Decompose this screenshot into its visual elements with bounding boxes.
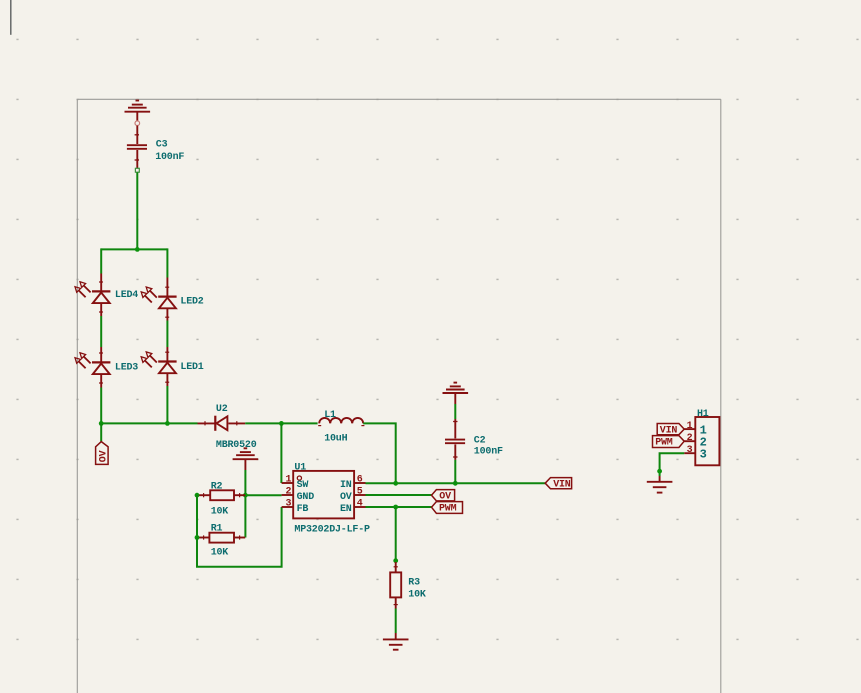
wire right column mid: [166, 321, 168, 348]
svg-text:1: 1: [286, 475, 292, 486]
LED3 arrows: [75, 353, 91, 369]
svg-text:PWM: PWM: [655, 438, 673, 449]
svg-text:LED3: LED3: [115, 363, 138, 374]
U2 labels: [216, 404, 257, 451]
resistor R1: [199, 533, 245, 543]
svg-text:IN: IN: [340, 480, 352, 491]
global label VIN (H1 side): [657, 424, 684, 437]
global label OV (mid): [432, 490, 455, 503]
svg-text:10K: 10K: [408, 590, 426, 601]
junction EN node: [393, 505, 398, 510]
U1 pin 5 OV: [340, 487, 366, 503]
R2 labels: [211, 482, 229, 518]
junction H1 ground: [657, 469, 662, 474]
junction SW node: [279, 421, 284, 426]
wire left column lower: [100, 388, 102, 424]
global label PWM (mid): [432, 502, 463, 515]
svg-text:2: 2: [687, 433, 693, 444]
U1 pin 4 EN: [340, 499, 366, 515]
U1 pin 2 GND: [282, 487, 315, 503]
wire right column lower: [166, 386, 168, 423]
wire right column upper: [166, 248, 168, 277]
capacitor C3: [127, 126, 147, 169]
R1 labels: [211, 523, 229, 558]
junction right bottom: [165, 421, 170, 426]
svg-text:SW: SW: [297, 480, 309, 491]
wire GND junction to pin 2: [245, 494, 281, 496]
wire gnd to C2: [454, 404, 456, 419]
svg-text:C2: C2: [474, 435, 486, 446]
wire OV pin to OV label: [366, 494, 432, 496]
junction R1 left: [195, 535, 200, 540]
connector H1 body: [695, 417, 719, 465]
resistor R3: [390, 562, 401, 609]
sheet border frame: [77, 99, 721, 693]
resistor R2: [199, 490, 245, 500]
svg-text:10uH: 10uH: [324, 434, 347, 445]
U1 pin 3 FB: [282, 499, 309, 515]
svg-text:10K: 10K: [211, 548, 229, 559]
LED2 arrows: [141, 287, 157, 303]
wire IN to VIN label: [366, 482, 546, 484]
junction GND net: [243, 493, 248, 498]
svg-text:GND: GND: [297, 492, 315, 503]
LED1 label: [180, 362, 203, 373]
wire R1 left down and across to FB: [197, 507, 282, 567]
diode U2: [198, 416, 246, 431]
wire L1 to IN column: [363, 423, 396, 483]
junction left bottom: [99, 421, 104, 426]
ground (flipped) above R2 GND net: [233, 448, 259, 470]
svg-text:PWM: PWM: [439, 504, 457, 515]
svg-text:R3: R3: [408, 577, 420, 588]
svg-text:6: 6: [357, 475, 363, 486]
svg-text:L1: L1: [324, 410, 336, 421]
op-amp U1 MP3202 body: [293, 471, 354, 519]
wire H1 pin 3 to ground: [660, 453, 685, 476]
LED2: [158, 278, 176, 321]
U1 pin 1 SW: [282, 475, 309, 491]
U1 reference label: [294, 463, 306, 474]
svg-text:H1: H1: [697, 409, 709, 420]
wire LED top bus: [101, 248, 167, 250]
wire left column mid: [100, 316, 102, 347]
svg-text:FB: FB: [297, 504, 309, 515]
svg-text:R2: R2: [211, 482, 223, 493]
junction C2 node: [453, 481, 458, 486]
H1 pin 2: [684, 433, 706, 450]
svg-text:5: 5: [357, 487, 363, 498]
wire C3 to LED bus: [136, 172, 138, 249]
svg-text:1: 1: [687, 421, 693, 432]
U1 pin-1 indicator circle: [297, 476, 301, 480]
svg-text:U1: U1: [294, 463, 306, 474]
svg-text:MBR0520: MBR0520: [216, 440, 257, 451]
svg-text:2: 2: [286, 487, 292, 498]
H1 pin 3: [684, 445, 706, 462]
global label OV (vertical): [96, 442, 110, 465]
ground (flipped) above C3: [125, 101, 151, 122]
junction R2 left: [195, 493, 200, 498]
capacitor C2: [445, 419, 465, 460]
L1 labels: [324, 410, 347, 445]
U1 value label: [294, 525, 370, 536]
ground (flipped) above C2: [443, 383, 469, 404]
svg-text:MP3202DJ-LF-P: MP3202DJ-LF-P: [294, 525, 370, 536]
C2 labels: [474, 435, 503, 457]
LED4 arrows: [75, 282, 91, 298]
svg-text:10K: 10K: [211, 507, 229, 518]
wire left column upper: [100, 248, 102, 273]
wire diode to L1: [245, 422, 317, 424]
wire to OV flag: [100, 423, 102, 441]
LED3 label: [115, 363, 138, 374]
LED4: [92, 274, 110, 317]
wire R2 left to R1 left: [196, 495, 198, 537]
wire EN pin to PWM label: [366, 506, 432, 508]
C3 labels: [155, 139, 184, 163]
unconnected pin circle node: [135, 121, 140, 126]
H1 pin 1: [684, 421, 706, 438]
wire C2 to IN line: [454, 460, 456, 483]
svg-text:100nF: 100nF: [474, 446, 503, 457]
svg-text:LED1: LED1: [180, 362, 203, 373]
global label PWM (H1 side): [653, 436, 685, 449]
page frame tick top-left: [10, 0, 12, 35]
wire R3 to ground: [395, 609, 397, 634]
wire end square at C3 bottom: [135, 168, 139, 172]
svg-text:3: 3: [700, 448, 707, 462]
H1 reference label: [697, 409, 709, 420]
svg-text:100nF: 100nF: [155, 152, 184, 163]
svg-text:3: 3: [286, 499, 292, 510]
LED4 label: [115, 290, 138, 301]
LED1: [158, 347, 176, 386]
wire EN node down to R3: [395, 507, 397, 562]
svg-text:OV: OV: [98, 450, 109, 462]
global label VIN (mid): [545, 478, 571, 491]
ground below R3: [383, 633, 409, 650]
LED3: [92, 347, 110, 388]
svg-text:OV: OV: [340, 492, 352, 503]
svg-text:LED4: LED4: [115, 290, 138, 301]
LED2 label: [180, 296, 203, 307]
svg-text:C3: C3: [156, 139, 168, 150]
svg-text:3: 3: [687, 445, 693, 456]
inductor L1: [318, 418, 364, 426]
junction R3 top: [393, 558, 398, 563]
svg-text:VIN: VIN: [553, 480, 571, 491]
U1 pin 6 IN: [340, 475, 366, 491]
wire LED bottom bus to diode: [101, 422, 197, 424]
wire gnd to R2 right junction and R1 right: [244, 470, 246, 538]
junction IN column: [393, 481, 398, 486]
ground below H1: [647, 476, 673, 493]
svg-text:U2: U2: [216, 404, 228, 415]
svg-text:4: 4: [357, 499, 363, 510]
svg-text:R1: R1: [211, 523, 223, 534]
svg-text:EN: EN: [340, 504, 352, 515]
wire SW node down to pin 1: [280, 423, 282, 483]
junction top bus: [135, 247, 140, 252]
R3 labels: [408, 577, 426, 600]
LED1 arrows: [141, 352, 157, 368]
svg-text:LED2: LED2: [180, 296, 203, 307]
